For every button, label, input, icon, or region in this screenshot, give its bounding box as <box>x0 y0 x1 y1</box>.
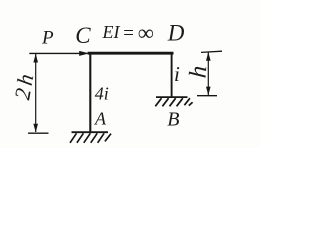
svg-text:D: D <box>167 21 185 46</box>
svg-text:EI: EI <box>102 22 121 42</box>
svg-text:∞: ∞ <box>138 20 154 45</box>
svg-text:C: C <box>75 23 91 48</box>
svg-text:A: A <box>94 109 107 129</box>
svg-text:h: h <box>185 65 213 79</box>
svg-text:4i: 4i <box>95 84 109 104</box>
svg-text:B: B <box>167 108 179 130</box>
svg-text:=: = <box>122 23 135 44</box>
svg-text:P: P <box>41 28 54 49</box>
svg-text:i: i <box>174 62 180 86</box>
svg-text:2h: 2h <box>9 69 39 102</box>
